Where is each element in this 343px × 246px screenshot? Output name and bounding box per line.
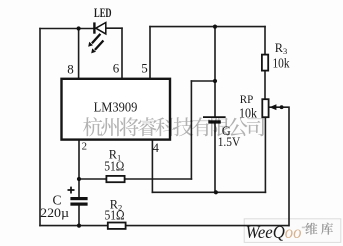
- capacitor C plus sign: [68, 187, 75, 194]
- wire: pin 5 riser: [149, 27, 151, 80]
- wire: R3 top lead: [264, 27, 266, 55]
- battery G positive plate: [203, 116, 226, 118]
- node: wiper junction dot: [280, 105, 284, 109]
- watermark 杭州将睿科技有限公司: [83, 117, 264, 136]
- wire: capacitor bottom lead: [78, 206, 80, 226]
- capacitor C bottom plate: [70, 203, 87, 206]
- LED cathode bar: [93, 22, 95, 33]
- svg-text:WeeQoo: WeeQoo: [246, 222, 302, 242]
- svg-text:4: 4: [153, 141, 159, 155]
- resistor R1 body: [106, 176, 124, 182]
- svg-text:10k: 10k: [273, 56, 290, 71]
- svg-text:51Ω: 51Ω: [104, 159, 124, 174]
- wire: left rail: [39, 29, 41, 226]
- battery G negative plate: [208, 120, 221, 123]
- wire: pin 6 drop: [121, 28, 123, 79]
- svg-text:6: 6: [113, 60, 120, 75]
- WeeQoo logo box (watermark, bottom right): [244, 219, 341, 243]
- wire: branch battery+ to R1 horizontal: [191, 80, 215, 82]
- WeeQoo logo hyphen mark: [302, 227, 305, 229]
- op-amp IC U1 LM3909 body: [62, 79, 171, 140]
- wire: battery negative lead: [214, 124, 216, 192]
- wire: RP bottom lead: [264, 117, 266, 192]
- LED triangle: [96, 23, 106, 34]
- wire: pin 4 horizontal to RP bottom: [152, 191, 265, 193]
- node: junction dot C / bottom rail: [77, 224, 81, 228]
- wire: pin 4 drop: [151, 140, 153, 193]
- node: junction dot LED / pin 8: [77, 26, 81, 30]
- svg-text:51Ω: 51Ω: [104, 207, 124, 222]
- node: junction dot top wire / battery +: [213, 25, 217, 29]
- wire: R3 to RP lead: [264, 71, 266, 100]
- wire: capacitor top lead: [78, 179, 80, 197]
- wire: battery positive lead: [214, 27, 216, 118]
- svg-text:LED: LED: [94, 5, 112, 20]
- resistor R2 body: [108, 223, 126, 229]
- svg-text:220µ: 220µ: [40, 205, 70, 220]
- svg-text:1.5V: 1.5V: [218, 134, 241, 149]
- node: junction dot pin2 / R1 / C: [77, 177, 81, 181]
- LED emission arrow 2: [95, 41, 104, 50]
- svg-text:8: 8: [67, 62, 74, 77]
- LED emission arrow 1: [88, 34, 103, 54]
- wire: pin 2 drop: [78, 140, 80, 179]
- wire: top wire from left rail to LED cathode: [40, 28, 93, 30]
- svg-text:LM3909: LM3909: [94, 100, 138, 115]
- wire: RP wiper to right rail down to bottom rail: [270, 107, 289, 225]
- svg-text:RP: RP: [240, 94, 254, 106]
- wire: top right wire: [150, 26, 265, 28]
- capacitor C top plate: [70, 197, 87, 200]
- wire: bottom rail: [40, 225, 289, 227]
- potentiometer RP body: [262, 99, 268, 117]
- potentiometer RP wiper arrow: [269, 104, 276, 110]
- resistor R3 body: [262, 55, 268, 71]
- wire: LED anode to pin6 corner: [106, 27, 122, 29]
- wire: R1 right lead: [125, 178, 192, 180]
- wire: R1 left lead: [79, 178, 106, 180]
- wire: branch vertical down to R1: [190, 81, 192, 179]
- svg-text:5: 5: [141, 60, 148, 75]
- wire: pin 8 riser: [78, 29, 80, 80]
- svg-text:10k: 10k: [239, 105, 257, 120]
- node: junction dot battery - / pin 4 wire: [214, 190, 218, 194]
- node: junction dot battery / R1 branch: [213, 79, 217, 83]
- WeeQoo logo CJK 维库: [305, 223, 333, 235]
- svg-text:2: 2: [82, 140, 87, 152]
- svg-text:R3: R3: [275, 41, 287, 56]
